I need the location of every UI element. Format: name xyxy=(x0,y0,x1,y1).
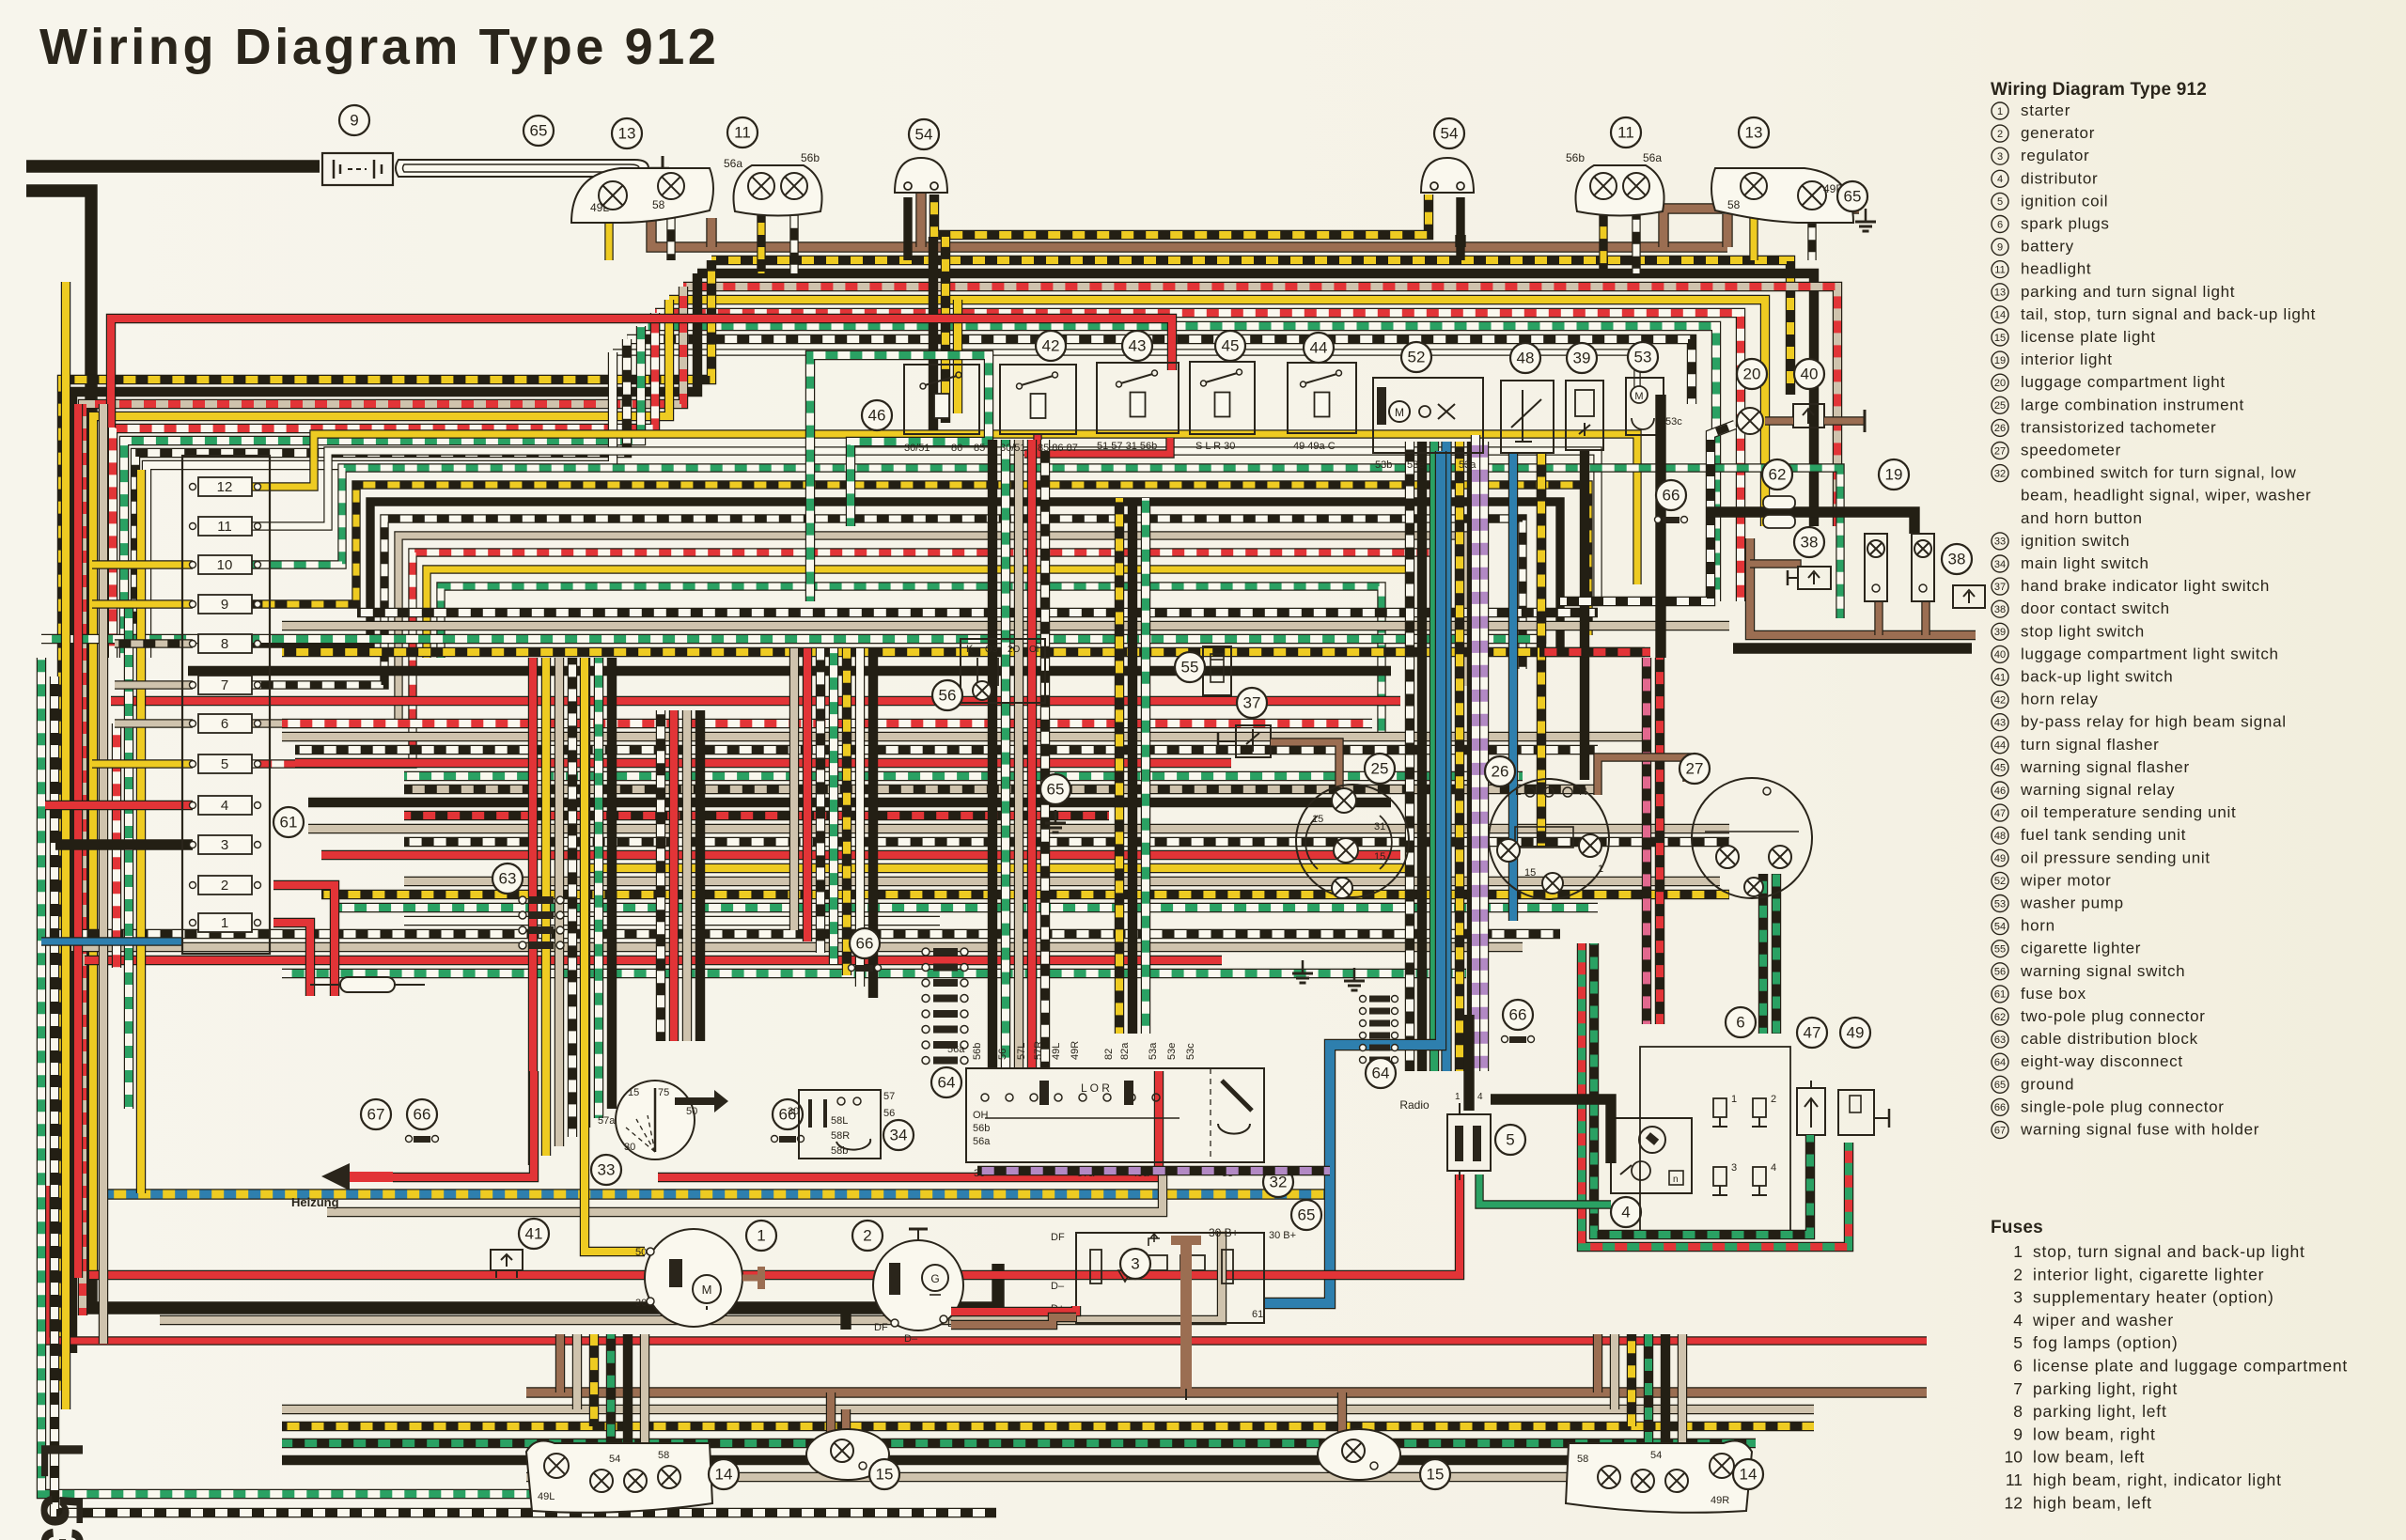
wire center bundle 17 xyxy=(71,942,1523,952)
wire green-white left edge xyxy=(41,658,695,1494)
svg-text:stop light switch: stop light switch xyxy=(2021,622,2145,640)
svg-text:5: 5 xyxy=(2013,1333,2023,1352)
wire left vertical 0 xyxy=(61,282,70,1409)
door contact switch 38 left xyxy=(1798,567,1831,589)
svg-text:56b: 56b xyxy=(801,151,820,164)
wire staircase 5 xyxy=(124,326,641,658)
ground 65 right xyxy=(1865,209,1867,222)
label 32 xyxy=(1263,1167,1293,1197)
label 61 xyxy=(273,807,304,837)
wire center bundle 4 xyxy=(404,771,1523,781)
svg-text:30: 30 xyxy=(635,1298,647,1309)
wire black-purple 53 feed xyxy=(977,1166,1330,1175)
svg-text:hand brake indicator light swi: hand brake indicator light switch xyxy=(2021,577,2270,595)
svg-text:parking and turn signal light: parking and turn signal light xyxy=(2021,283,2235,301)
wire tan-red top run xyxy=(683,287,1837,526)
svg-text:56: 56 xyxy=(939,687,957,705)
svg-text:54: 54 xyxy=(1650,1450,1662,1461)
svg-text:large combination instrument: large combination instrument xyxy=(2021,396,2244,413)
washer pump 53 xyxy=(1626,378,1664,435)
svg-text:38: 38 xyxy=(1948,551,1966,568)
svg-text:86: 86 xyxy=(951,443,962,454)
label 9 xyxy=(339,105,369,135)
svg-text:main light switch: main light switch xyxy=(2021,554,2149,572)
svg-text:26: 26 xyxy=(1994,423,2006,434)
svg-text:Wiring Diagram Type 912: Wiring Diagram Type 912 xyxy=(39,19,720,75)
wire mid bundle 1 xyxy=(250,451,1598,601)
headlight 11 right xyxy=(1575,165,1664,216)
svg-text:luggage compartment light swit: luggage compartment light switch xyxy=(2021,645,2279,662)
wire riser 34 block 1 xyxy=(803,648,812,941)
svg-text:43: 43 xyxy=(1994,718,2006,729)
wire center bundle 14 xyxy=(335,903,1598,912)
oil temperature sending unit 47 xyxy=(1797,1088,1825,1135)
svg-text:37: 37 xyxy=(1243,694,1261,712)
svg-text:43: 43 xyxy=(1129,337,1147,355)
spark plugs 6 xyxy=(1640,1047,1790,1233)
wire blue-yellow main xyxy=(108,1189,1327,1199)
wire mid bundle 0 xyxy=(250,434,1637,584)
wire green-black engine xyxy=(1594,943,1810,1235)
svg-text:1: 1 xyxy=(1731,1094,1737,1105)
wire lamp drop right 2 xyxy=(1627,1334,1636,1426)
warning signal switch 56 xyxy=(961,639,1045,703)
label 55 xyxy=(1175,652,1205,682)
terminal bar 40 xyxy=(1864,410,1867,432)
door contact switch 38 right xyxy=(1953,585,1985,608)
svg-text:13: 13 xyxy=(618,125,636,143)
svg-text:9: 9 xyxy=(2013,1424,2023,1443)
svg-text:fuse box: fuse box xyxy=(2021,985,2086,1003)
svg-text:11: 11 xyxy=(1617,124,1634,142)
svg-text:tail, stop, turn signal and ba: tail, stop, turn signal and back-up ligh… xyxy=(2021,305,2316,323)
svg-text:high beam, right, indicator li: high beam, right, indicator light xyxy=(2033,1470,2282,1489)
wire lamp drop left 0 xyxy=(555,1334,565,1392)
label 4 xyxy=(1611,1197,1641,1227)
svg-text:64: 64 xyxy=(938,1074,956,1092)
svg-text:1: 1 xyxy=(221,915,228,931)
svg-text:44: 44 xyxy=(1994,740,2006,752)
label 56 xyxy=(932,680,962,710)
parking and turn signal light 13 left xyxy=(571,168,713,223)
svg-text:6: 6 xyxy=(1997,219,2003,230)
svg-text:66: 66 xyxy=(1509,1006,1527,1024)
wire blue drop 48 xyxy=(1508,453,1518,921)
svg-text:luggage compartment light: luggage compartment light xyxy=(2021,373,2226,391)
svg-text:and horn button: and horn button xyxy=(2021,509,2143,527)
svg-text:49R: 49R xyxy=(1711,1495,1729,1506)
label 66 xyxy=(1656,480,1686,510)
svg-text:DF: DF xyxy=(1051,1232,1065,1243)
label 66 xyxy=(850,928,880,958)
svg-text:4: 4 xyxy=(1771,1162,1776,1174)
combined switch 32 xyxy=(966,1068,1264,1162)
speedometer 27 xyxy=(1692,778,1812,898)
svg-text:n: n xyxy=(1673,1174,1679,1185)
svg-text:L O R: L O R xyxy=(1081,1081,1110,1095)
svg-text:generator: generator xyxy=(2021,124,2095,142)
warning signal fuse with holder 67 xyxy=(340,977,395,992)
svg-text:license plate and luggage comp: license plate and luggage compartment xyxy=(2033,1357,2348,1376)
svg-text:ground: ground xyxy=(2021,1075,2074,1093)
svg-text:2: 2 xyxy=(2013,1265,2023,1283)
wire riser 25 1 xyxy=(1128,498,1137,1034)
wire center bundle 12 xyxy=(404,877,1720,886)
wire horn bus black-yellow xyxy=(934,194,1429,235)
svg-text:3: 3 xyxy=(2013,1288,2023,1307)
wire black coil-dist xyxy=(1491,1099,1611,1163)
wire left vertical 2 xyxy=(99,404,108,1344)
wire fuse feed 1 xyxy=(92,599,193,608)
svg-text:15: 15 xyxy=(1427,1466,1445,1484)
svg-text:41: 41 xyxy=(1994,672,2006,683)
wire brown door stub 1 xyxy=(1874,601,1883,635)
ground 65 xyxy=(1302,960,1305,973)
svg-text:30/51: 30/51 xyxy=(904,443,930,454)
headlight 11 left xyxy=(733,165,821,216)
svg-text:38: 38 xyxy=(1801,534,1819,552)
label 54 xyxy=(909,119,939,149)
svg-text:85: 85 xyxy=(974,443,985,454)
wire fuse feed blue 1 xyxy=(41,937,182,945)
svg-text:39: 39 xyxy=(1573,350,1591,367)
parking and turn signal light 13 right xyxy=(1711,168,1853,223)
wire black coil xyxy=(1463,1015,1474,1111)
svg-text:52: 52 xyxy=(1408,349,1426,366)
wire riser instruments 6 xyxy=(1479,442,1489,1071)
wire mid bundle 2 xyxy=(250,468,1840,618)
svg-text:15: 15 xyxy=(1374,851,1385,863)
svg-text:6: 6 xyxy=(1736,1014,1744,1032)
svg-text:interior light, cigarette ligh: interior light, cigarette lighter xyxy=(2033,1265,2264,1283)
fuse box 61 xyxy=(182,456,270,954)
wire tan 32 return xyxy=(327,1170,1163,1212)
cable distribution block 63 xyxy=(519,896,526,904)
tail stop turn light 14 left xyxy=(526,1440,712,1512)
wire mid bundle 6 xyxy=(250,536,1466,723)
wire staircase 7 xyxy=(147,352,613,658)
wire mid bundle 4 xyxy=(250,502,1560,652)
wire fuse feed 2 xyxy=(115,639,193,647)
label 62 xyxy=(1762,459,1792,490)
label 66 xyxy=(773,1099,803,1129)
svg-text:12: 12 xyxy=(217,479,233,495)
svg-text:62: 62 xyxy=(1994,1012,2006,1023)
svg-text:OH: OH xyxy=(973,1110,989,1121)
wire center bundle 16 xyxy=(56,929,1560,939)
label 2 xyxy=(852,1221,883,1251)
wire black feed 46 xyxy=(929,237,938,432)
regulator 3 xyxy=(1076,1233,1264,1323)
svg-text:Wiring Diagram Type 912: Wiring Diagram Type 912 xyxy=(1991,80,2207,100)
wire riser instruments 1 xyxy=(1417,442,1427,1071)
label 66 xyxy=(407,1099,437,1129)
svg-text:2: 2 xyxy=(1997,129,2003,140)
svg-text:48: 48 xyxy=(1517,350,1535,367)
wire center bundle 13 xyxy=(321,890,1729,899)
wire brown luggage xyxy=(1765,416,1793,425)
by-pass relay 43 xyxy=(1097,363,1179,433)
svg-text:49R: 49R xyxy=(1070,1041,1081,1060)
wire center bundle 2 xyxy=(295,745,1598,754)
wire license drop L2 xyxy=(841,1409,851,1466)
svg-text:56: 56 xyxy=(997,1049,1008,1060)
wire mid bundle 3 xyxy=(250,485,1588,635)
svg-text:56b: 56b xyxy=(1566,151,1585,164)
svg-text:1: 1 xyxy=(1598,863,1603,875)
wire brown riser lamp right xyxy=(1722,214,1732,247)
wire yellow-black row 694 xyxy=(282,647,1645,657)
interior light 19 xyxy=(1865,534,1887,601)
wire tan row 666 xyxy=(282,621,1729,630)
svg-text:washer pump: washer pump xyxy=(2020,894,2124,912)
svg-text:wiper and washer: wiper and washer xyxy=(2032,1311,2174,1330)
svg-text:cable distribution block: cable distribution block xyxy=(2021,1030,2198,1048)
wire pink vertical xyxy=(1642,658,1651,1024)
wire brown luggage 2 xyxy=(1824,416,1865,425)
svg-text:2O: 2O xyxy=(1008,645,1021,655)
wire fuse feed 4 xyxy=(115,719,193,727)
svg-text:49 49a C: 49 49a C xyxy=(1293,441,1336,452)
svg-text:fuel tank sending unit: fuel tank sending unit xyxy=(2021,826,2186,844)
fuel tank sending unit 48 xyxy=(1501,381,1554,453)
wire center bundle 11 xyxy=(583,863,1410,873)
tail stop turn light 14 right xyxy=(1566,1440,1752,1512)
svg-text:regulator: regulator xyxy=(2021,147,2089,164)
wire staircase 6 xyxy=(135,339,627,658)
svg-text:transistorized tachometer: transistorized tachometer xyxy=(2021,418,2216,436)
svg-text:M: M xyxy=(702,1283,712,1297)
svg-text:15: 15 xyxy=(1312,814,1323,825)
label 39 xyxy=(1567,343,1597,373)
wire staircase 3 xyxy=(93,300,669,1278)
main light switch 34 xyxy=(799,1090,881,1159)
wire regulator red xyxy=(951,1306,1076,1312)
svg-text:54: 54 xyxy=(1994,921,2006,932)
label 33 xyxy=(591,1155,621,1185)
svg-text:4: 4 xyxy=(1621,1204,1630,1221)
svg-text:ignition coil: ignition coil xyxy=(2021,192,2108,210)
label 42 xyxy=(1036,331,1066,361)
svg-text:54: 54 xyxy=(915,126,933,144)
wire fuse feed 5 xyxy=(92,759,193,768)
label 53 xyxy=(1628,342,1658,372)
svg-text:1: 1 xyxy=(1455,1092,1461,1102)
svg-text:3: 3 xyxy=(1731,1162,1737,1174)
svg-text:66: 66 xyxy=(856,935,874,953)
svg-text:53b: 53b xyxy=(1375,459,1392,471)
wire riser instruments 4 xyxy=(1455,442,1464,1071)
wire yellow to starter 50 xyxy=(585,658,645,1252)
wire brown to ground right xyxy=(1664,209,1859,247)
horn 54 left xyxy=(895,158,947,193)
wire riser 63 block 2 xyxy=(555,658,564,1146)
svg-text:32: 32 xyxy=(1994,468,2006,479)
wire lamp drop left 5 xyxy=(640,1334,649,1477)
wire fuse feed 0 xyxy=(92,560,193,568)
svg-text:1: 1 xyxy=(1997,106,2003,117)
svg-text:O3: O3 xyxy=(985,645,998,655)
wire brown handbrake to 25 xyxy=(1271,742,1339,787)
wire left vertical 1 xyxy=(73,404,83,1278)
svg-text:ignition switch: ignition switch xyxy=(2021,532,2130,550)
svg-text:10: 10 xyxy=(2005,1448,2023,1467)
svg-text:parking light, right: parking light, right xyxy=(2033,1379,2178,1398)
svg-text:4: 4 xyxy=(1997,174,2003,185)
label 65 xyxy=(1291,1200,1321,1230)
wire black door feed xyxy=(1707,512,1914,534)
wire left vertical 4 xyxy=(124,601,133,1109)
label 5 xyxy=(1495,1125,1525,1155)
svg-text:49L: 49L xyxy=(590,201,609,214)
svg-text:55: 55 xyxy=(1181,659,1199,677)
label 13 xyxy=(612,118,642,148)
svg-text:8: 8 xyxy=(221,636,228,652)
wire staircase 1 xyxy=(72,273,697,1353)
svg-text:K: K xyxy=(966,644,974,655)
wiper motor 52 xyxy=(1373,378,1483,453)
svg-text:1: 1 xyxy=(2013,1242,2023,1261)
eight-way disconnect 64 radio xyxy=(1360,996,1367,1003)
svg-text:battery: battery xyxy=(2021,238,2074,256)
svg-text:1: 1 xyxy=(757,1227,765,1245)
svg-text:wiper motor: wiper motor xyxy=(2020,871,2112,889)
wire center bundle 1 xyxy=(282,732,1647,741)
single-pole plug connectors 66 xyxy=(849,965,855,972)
svg-text:66: 66 xyxy=(1663,487,1680,505)
svg-text:34: 34 xyxy=(890,1127,908,1144)
svg-text:eight-way disconnect: eight-way disconnect xyxy=(2021,1052,2183,1070)
wire left vertical 5 xyxy=(136,470,146,1193)
wire riser mid 3 xyxy=(695,710,705,1041)
label 65 xyxy=(523,116,554,146)
wire regulator brown xyxy=(951,1317,1076,1325)
wire mid bundle 9 xyxy=(441,586,1382,737)
wire riser instruments 2 xyxy=(1430,442,1439,1071)
svg-text:horn relay: horn relay xyxy=(2021,691,2099,708)
svg-text:distributor: distributor xyxy=(2021,169,2098,187)
wire riser 34 block 6 xyxy=(868,648,878,998)
label 47 xyxy=(1797,1018,1827,1048)
svg-text:15: 15 xyxy=(876,1466,894,1484)
wire staircase 0 xyxy=(62,260,711,1391)
svg-text:58: 58 xyxy=(1577,1454,1588,1465)
wire riser 32 block 1 xyxy=(1001,440,1010,1068)
svg-text:58: 58 xyxy=(1727,198,1741,211)
svg-text:fog lamps (option): fog lamps (option) xyxy=(2033,1333,2178,1352)
battery 9 xyxy=(322,153,393,185)
svg-text:14: 14 xyxy=(1740,1466,1758,1484)
svg-text:39: 39 xyxy=(1994,627,2006,638)
label 34 xyxy=(883,1120,914,1150)
wire lamp drop left 1 xyxy=(572,1334,582,1409)
svg-text:53a: 53a xyxy=(1459,459,1476,471)
label 14 xyxy=(1733,1459,1763,1489)
label 25 xyxy=(1365,754,1395,784)
svg-text:64: 64 xyxy=(1372,1065,1390,1082)
svg-text:30/51: 30/51 xyxy=(1000,443,1026,454)
wire center bundle 6 xyxy=(308,798,1391,807)
svg-text:20: 20 xyxy=(1994,378,2006,389)
svg-text:14: 14 xyxy=(1994,310,2006,321)
wire tan bottom xyxy=(160,1231,1222,1320)
wire black bottom xyxy=(282,1455,1645,1465)
svg-text:turn signal flasher: turn signal flasher xyxy=(2021,736,2159,754)
svg-text:by-pass relay for high beam si: by-pass relay for high beam signal xyxy=(2021,713,2287,731)
label 45 xyxy=(1215,331,1245,361)
wire riser 63 block 4 xyxy=(581,658,590,1128)
svg-text:two-pole plug connector: two-pole plug connector xyxy=(2021,1007,2206,1025)
wire yellow top run 2 xyxy=(669,300,1765,526)
wire yellow-black drop 48 xyxy=(1537,453,1546,846)
svg-text:spark plugs: spark plugs xyxy=(2021,215,2110,233)
hand brake indicator switch 37 xyxy=(1236,725,1271,757)
wire purple drop 53 xyxy=(1471,435,1480,1071)
svg-text:high beam, left: high beam, left xyxy=(2033,1493,2152,1512)
wire red-black vertical xyxy=(1655,658,1664,1024)
wire fuse feed red 4 xyxy=(45,801,193,810)
svg-text:M: M xyxy=(1395,406,1404,419)
wire center bundle 7 xyxy=(404,811,1109,820)
wire riser mid 1 xyxy=(669,710,679,1041)
svg-text:57L: 57L xyxy=(1016,1043,1027,1060)
svg-text:30 B+: 30 B+ xyxy=(1269,1230,1296,1241)
wire riser mid 2 xyxy=(682,710,692,1041)
svg-text:19: 19 xyxy=(1994,355,2006,366)
svg-text:speedometer: speedometer xyxy=(2021,442,2121,459)
ignition coil 5 xyxy=(1447,1114,1491,1171)
heater wire Heizung xyxy=(348,1172,393,1182)
label 65 xyxy=(1040,774,1070,804)
wire center bundle 3 xyxy=(295,758,1231,768)
luggage light switch 40 xyxy=(1793,404,1824,428)
wire fuse feed 3 xyxy=(115,680,193,689)
wire center bundle 5 xyxy=(404,785,1598,794)
svg-text:license plate light: license plate light xyxy=(2021,328,2156,346)
wire lamp drop left 3 xyxy=(606,1334,616,1443)
svg-text:11: 11 xyxy=(2006,1470,2023,1489)
wire riser 32 block 4 xyxy=(1040,440,1050,1068)
label 63 xyxy=(492,863,523,894)
svg-text:54: 54 xyxy=(1441,125,1459,143)
svg-text:27: 27 xyxy=(1994,445,2006,457)
wire generator black xyxy=(840,1308,851,1330)
svg-text:G: G xyxy=(930,1272,939,1285)
cigarette lighter 55 xyxy=(1203,646,1231,695)
svg-text:15: 15 xyxy=(1524,867,1536,879)
svg-text:2: 2 xyxy=(221,878,228,894)
wire mid bundle 7 xyxy=(250,552,1438,764)
wire center bundle 10 xyxy=(321,850,1400,860)
svg-text:37: 37 xyxy=(1994,582,2006,593)
wire riser horn 54R xyxy=(1456,197,1464,260)
svg-text:combined switch for turn signa: combined switch for turn signal, low xyxy=(2021,464,2297,482)
wire center bundle 0 xyxy=(282,719,1372,728)
wire brown drop headlight 13L xyxy=(706,218,716,247)
svg-text:DF: DF xyxy=(874,1322,888,1333)
svg-text:supplementary heater (option): supplementary heater (option) xyxy=(2033,1288,2274,1307)
svg-text:S L R 30: S L R 30 xyxy=(1195,441,1235,452)
wire black 53c drop xyxy=(1655,395,1665,658)
wire riser 63 block 5 xyxy=(594,658,603,1118)
svg-text:56a: 56a xyxy=(947,1044,965,1055)
wire riser lamp 13L b xyxy=(666,209,675,260)
svg-text:67: 67 xyxy=(1994,1125,2006,1136)
svg-text:58: 58 xyxy=(652,198,665,211)
label 43 xyxy=(1122,331,1152,361)
svg-text:41: 41 xyxy=(525,1225,543,1243)
svg-text:9: 9 xyxy=(350,112,358,130)
